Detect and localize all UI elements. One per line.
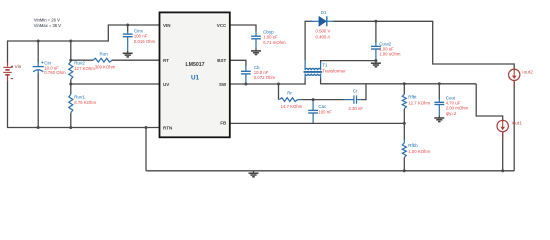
wire Rr branch drop (278, 84, 280, 100)
current source Iout1 (497, 120, 508, 131)
svg-text:UV: UV (163, 82, 169, 87)
current source Iout2 (509, 69, 520, 80)
svg-text:FB: FB (220, 121, 227, 126)
wire jog to VIN pin (108, 25, 159, 42)
voltage source Vin (7, 62, 9, 67)
wire Cinx branch (127, 25, 129, 32)
svg-text:RTN: RTN (163, 125, 172, 130)
svg-text:5.71 mOhm: 5.71 mOhm (263, 40, 286, 45)
svg-text:12.7 KOhm: 12.7 KOhm (408, 100, 430, 105)
svg-text:Transformer: Transformer (322, 68, 346, 73)
svg-text:Iout2: Iout2 (522, 69, 533, 74)
wire to Iout2 (433, 21, 515, 69)
wire Ruv chain (70, 40, 72, 61)
svg-text:LM5017: LM5017 (185, 62, 204, 68)
svg-text:SW: SW (219, 82, 227, 87)
resistor Rr (279, 98, 297, 102)
wire transformer primary right to output rail (320, 74, 322, 79)
wire SW line (230, 83, 306, 85)
wire bottom-left rail to RTN (7, 127, 160, 129)
svg-text:Cac: Cac (318, 104, 327, 109)
resistor Ruv2 (69, 62, 73, 80)
svg-text:VIN: VIN (163, 23, 171, 28)
svg-text:RT: RT (163, 58, 169, 63)
capacitor Cbyp (251, 36, 261, 39)
capacitor Cout (434, 102, 444, 104)
wire output rail (321, 83, 477, 85)
wire Rr to Cac to Cr (298, 99, 302, 101)
resistor Ruv1 (69, 94, 73, 113)
capacitor Cin (37, 62, 39, 67)
wire D1 cathode run (333, 20, 433, 22)
capacitor Cinx (123, 34, 133, 37)
resistor Rfbb (402, 143, 406, 158)
node junctions (37, 40, 40, 43)
svg-text:U1: U1 (191, 75, 200, 82)
wire transformer primary left (SW side) (304, 21, 306, 60)
capacitor Cac (308, 110, 318, 113)
svg-text:0.016 Ohm: 0.016 Ohm (134, 39, 156, 44)
svg-text:0.760 Ohm: 0.760 Ohm (44, 70, 66, 75)
wire transformer secondary right to Cout2 gnd (320, 62, 322, 70)
capacitor Cb (241, 71, 251, 74)
wire Iout1 bottom stub (502, 132, 504, 171)
svg-text:BST: BST (217, 58, 226, 63)
ground for Cout (434, 116, 444, 122)
svg-text:0.072 Ohm: 0.072 Ohm (254, 75, 276, 80)
wire Cout2 branch (375, 21, 377, 42)
svg-text:Ron: Ron (100, 51, 109, 56)
capacitor Cr (354, 95, 357, 103)
svg-text:0.500 V: 0.500 V (316, 28, 331, 33)
wire BST to Cb (230, 60, 246, 66)
wire Cout branch (438, 84, 440, 100)
wire rail corner to Iout1 (476, 84, 503, 121)
svg-text:Cr: Cr (353, 89, 358, 94)
svg-text:309 KOhm: 309 KOhm (95, 64, 116, 69)
svg-text:Rr: Rr (287, 90, 292, 95)
svg-text:Vin: Vin (15, 64, 22, 70)
svg-text:Iout1: Iout1 (512, 121, 523, 126)
ground for Cinx (123, 51, 133, 57)
ground for Cbyp (251, 49, 261, 55)
wire down-leg from RTN rail (145, 128, 147, 171)
svg-text:3.30 nF: 3.30 nF (348, 106, 363, 111)
wire D1 anode from transformer (305, 20, 312, 22)
svg-text:100 nF: 100 nF (318, 109, 332, 114)
svg-text:Rfbt: Rfbt (408, 95, 417, 100)
svg-text:14.7 KOhm: 14.7 KOhm (281, 104, 303, 109)
wire VCC to Cbyp (230, 25, 256, 32)
svg-text:8.76 KOhm: 8.76 KOhm (74, 100, 96, 105)
op-amp/regulator IC U1 LM5017 (160, 12, 230, 137)
svg-text:VinMax = 36 V: VinMax = 36 V (34, 23, 61, 28)
ground for Cout2 (371, 61, 381, 67)
svg-text:0.400 A: 0.400 A (316, 34, 331, 39)
wire FB line (230, 122, 404, 124)
svg-text:T1: T1 (322, 62, 328, 67)
svg-text:127 KOhm: 127 KOhm (74, 66, 95, 71)
resistor Rfbt (402, 94, 406, 109)
wire Cr right to rail (344, 99, 354, 101)
svg-text:D1: D1 (321, 10, 327, 15)
svg-text:VinMin = 26 V: VinMin = 26 V (34, 17, 60, 22)
svg-text:1.00 uOhm: 1.00 uOhm (379, 51, 401, 56)
resistor Ron (93, 58, 112, 62)
wire RT line (71, 59, 94, 61)
wire left rail (Vin branch) (7, 40, 9, 62)
wire top-left rail (8, 40, 109, 42)
wire Cac drop to FB (312, 100, 314, 111)
diode D1 (319, 16, 326, 26)
wire UV line (71, 83, 160, 85)
wire Iout2 bottom stub (513, 81, 515, 171)
svg-text:Ruv2: Ruv2 (74, 60, 85, 65)
wire Rfbt branch (403, 84, 405, 94)
wire bottom ground rail (146, 170, 514, 172)
transformer T1 (305, 68, 321, 70)
svg-text:qty=2: qty=2 (446, 111, 457, 116)
wire Rfbb branch (403, 123, 405, 139)
svg-text:1.00 KOhm: 1.00 KOhm (408, 149, 430, 154)
capacitor Cout2 (371, 46, 381, 49)
wire Cin branch (37, 40, 39, 62)
svg-text:Ruv1: Ruv1 (74, 95, 85, 100)
ground bottom rail (249, 171, 259, 177)
svg-text:Rfbb: Rfbb (408, 143, 418, 148)
svg-text:VCC: VCC (217, 23, 227, 28)
